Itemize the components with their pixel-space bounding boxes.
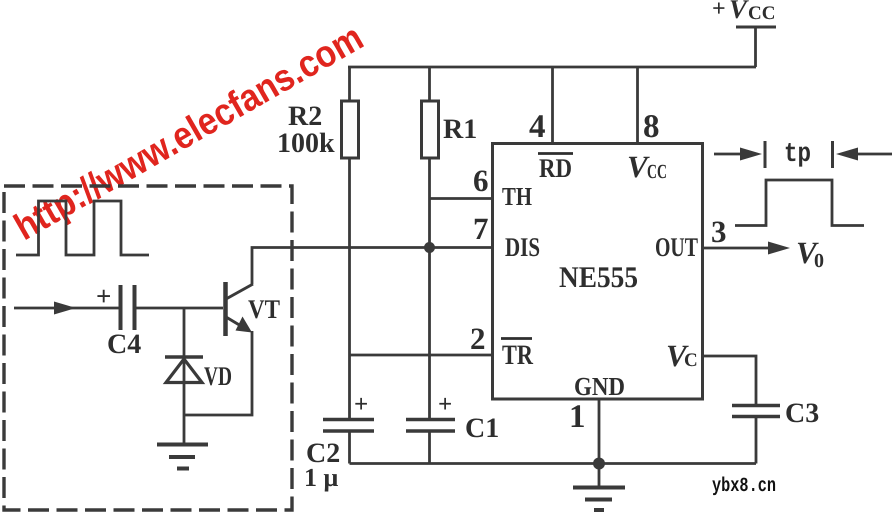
wire bottom ground bus (350, 462, 757, 465)
capacitor C3 (732, 398, 819, 464)
capacitor C4 (96, 281, 141, 360)
svg-text:6: 6 (473, 163, 489, 198)
wire VC pin (703, 356, 757, 404)
wire pin 8 (638, 67, 660, 145)
wire pin 3 OUT with arrow (703, 214, 825, 272)
wire collector to DIS pin 7 (252, 248, 493, 285)
tp timing marks (714, 140, 892, 170)
wire VCC top rail (348, 66, 756, 69)
site label ybx8.cn (712, 475, 776, 498)
svg-text:C3: C3 (785, 398, 819, 429)
capacitor C2 1u (304, 391, 374, 492)
svg-text:VT: VT (248, 294, 280, 324)
svg-text:CC: CC (748, 3, 775, 24)
svg-text:VD: VD (204, 361, 232, 391)
svg-text:ybx8.cn: ybx8.cn (712, 475, 776, 498)
wire pin 6 TH (430, 163, 493, 199)
wire emitter down to ground rail (184, 331, 252, 415)
svg-text:GND: GND (574, 372, 625, 401)
svg-text:7: 7 (473, 211, 489, 246)
wire pin 1 GND (569, 399, 599, 487)
svg-text:1: 1 (569, 399, 586, 435)
svg-text:R1: R1 (443, 114, 477, 145)
ground (input stage) (157, 445, 208, 469)
input pulse waveform (16, 201, 149, 255)
svg-text:V: V (729, 0, 749, 24)
wire pin 4 (529, 67, 553, 145)
resistor R2 100k (277, 67, 359, 419)
svg-text:DIS: DIS (505, 232, 540, 262)
input wire with arrow (14, 302, 119, 315)
svg-text:8: 8 (643, 109, 660, 145)
svg-text:2: 2 (470, 321, 486, 356)
svg-text:OUT: OUT (655, 232, 698, 262)
transistor VT (226, 282, 281, 336)
node junction at R1/DIS (424, 242, 435, 253)
wire pin 2 TR (350, 321, 493, 356)
power +VCC (712, 0, 776, 67)
svg-text:C: C (684, 350, 698, 371)
svg-text:1 μ: 1 μ (304, 463, 339, 492)
svg-text:0: 0 (814, 250, 824, 272)
IC U1 NE555 body (493, 144, 703, 402)
svg-text:C4: C4 (107, 329, 141, 360)
svg-text:NE555: NE555 (559, 261, 638, 294)
diode VD (165, 308, 232, 444)
output pulse waveform (735, 180, 864, 226)
svg-text:100k: 100k (277, 128, 335, 159)
resistor R1 (422, 67, 478, 419)
svg-text:C1: C1 (465, 413, 499, 444)
svg-text:TH: TH (502, 182, 532, 211)
dashed box (input stage) (4, 186, 292, 510)
svg-text:CC: CC (647, 161, 667, 183)
svg-text:+: + (354, 391, 368, 418)
watermark http://www.elecfans.com (8, 17, 371, 249)
svg-text:+: + (438, 391, 452, 418)
svg-text:+: + (96, 281, 111, 311)
svg-text:3: 3 (711, 214, 727, 249)
svg-text:TR: TR (502, 340, 534, 371)
capacitor C1 (406, 391, 499, 464)
label pin 7 (473, 211, 489, 246)
ground (main) (573, 488, 625, 511)
svg-text:RD: RD (539, 153, 572, 183)
svg-text:4: 4 (529, 109, 546, 145)
svg-text:tp: tp (784, 140, 811, 170)
node junction ground bus (593, 458, 605, 470)
wire C4 to base (136, 307, 223, 310)
svg-text:+: + (712, 0, 726, 22)
